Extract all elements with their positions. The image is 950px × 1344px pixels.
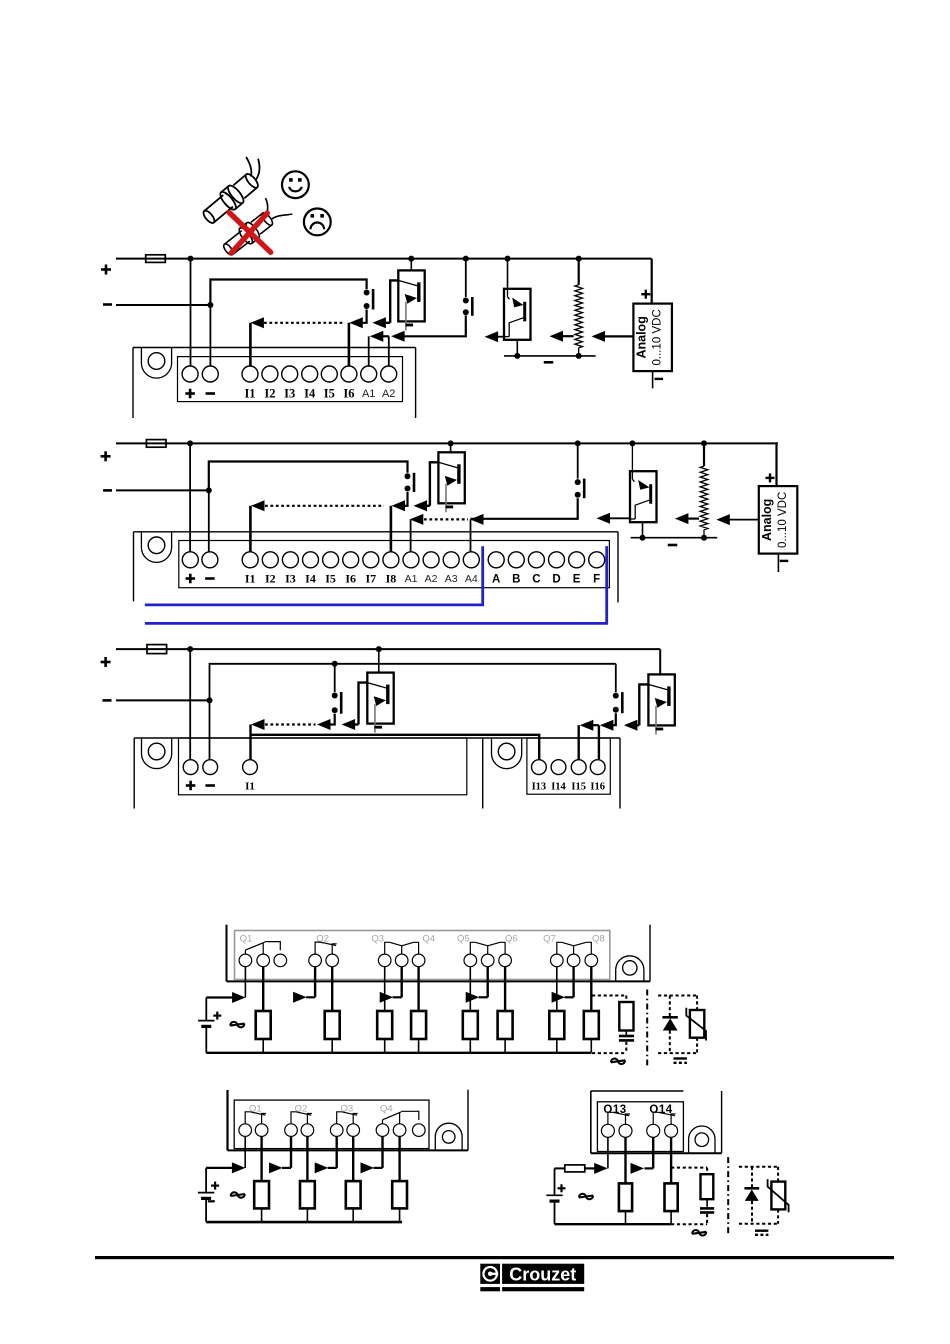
svg-text:I1: I1 <box>244 387 255 401</box>
svg-text:F: F <box>593 574 600 586</box>
svg-text:A1: A1 <box>362 388 375 400</box>
svg-text:0...10 VDC: 0...10 VDC <box>777 492 789 548</box>
svg-text:I3: I3 <box>285 572 296 586</box>
svg-text:I13: I13 <box>532 782 547 793</box>
svg-text:Analog: Analog <box>634 316 648 358</box>
svg-text:A: A <box>492 574 500 586</box>
svg-text:I6: I6 <box>343 387 354 401</box>
svg-text:I2: I2 <box>265 572 276 586</box>
svg-text:I4: I4 <box>304 387 316 401</box>
svg-text:C: C <box>532 574 540 586</box>
svg-text:I14: I14 <box>551 782 566 793</box>
svg-text:I16: I16 <box>590 782 605 793</box>
svg-text:Q5: Q5 <box>457 934 470 945</box>
svg-text:I1: I1 <box>245 572 256 586</box>
svg-text:I2: I2 <box>264 387 275 401</box>
svg-text:0...10 VDC: 0...10 VDC <box>651 309 663 365</box>
svg-text:Q4: Q4 <box>380 1104 393 1115</box>
svg-text:Q1: Q1 <box>240 934 253 945</box>
svg-text:I5: I5 <box>324 387 335 401</box>
svg-text:A2: A2 <box>382 388 395 400</box>
svg-text:Q3: Q3 <box>371 934 384 945</box>
svg-text:B: B <box>512 574 520 586</box>
svg-text:E: E <box>573 574 581 586</box>
svg-text:I5: I5 <box>325 572 336 586</box>
svg-text:Q8: Q8 <box>592 934 605 945</box>
svg-text:Q4: Q4 <box>422 934 435 945</box>
svg-text:I3: I3 <box>284 387 295 401</box>
svg-text:Q7: Q7 <box>543 934 556 945</box>
svg-text:Crouzet: Crouzet <box>509 1264 576 1284</box>
svg-text:I1: I1 <box>245 781 255 793</box>
svg-text:I7: I7 <box>365 572 376 586</box>
svg-text:Q6: Q6 <box>505 934 518 945</box>
svg-text:A4: A4 <box>465 573 478 585</box>
svg-text:I8: I8 <box>386 572 397 586</box>
svg-text:I4: I4 <box>305 572 316 586</box>
svg-text:Analog: Analog <box>760 499 774 541</box>
svg-text:A2: A2 <box>425 573 438 585</box>
svg-text:I15: I15 <box>571 782 586 793</box>
svg-text:I6: I6 <box>345 572 356 586</box>
svg-text:A1: A1 <box>405 573 418 585</box>
svg-text:A3: A3 <box>445 573 458 585</box>
svg-text:D: D <box>552 574 560 586</box>
